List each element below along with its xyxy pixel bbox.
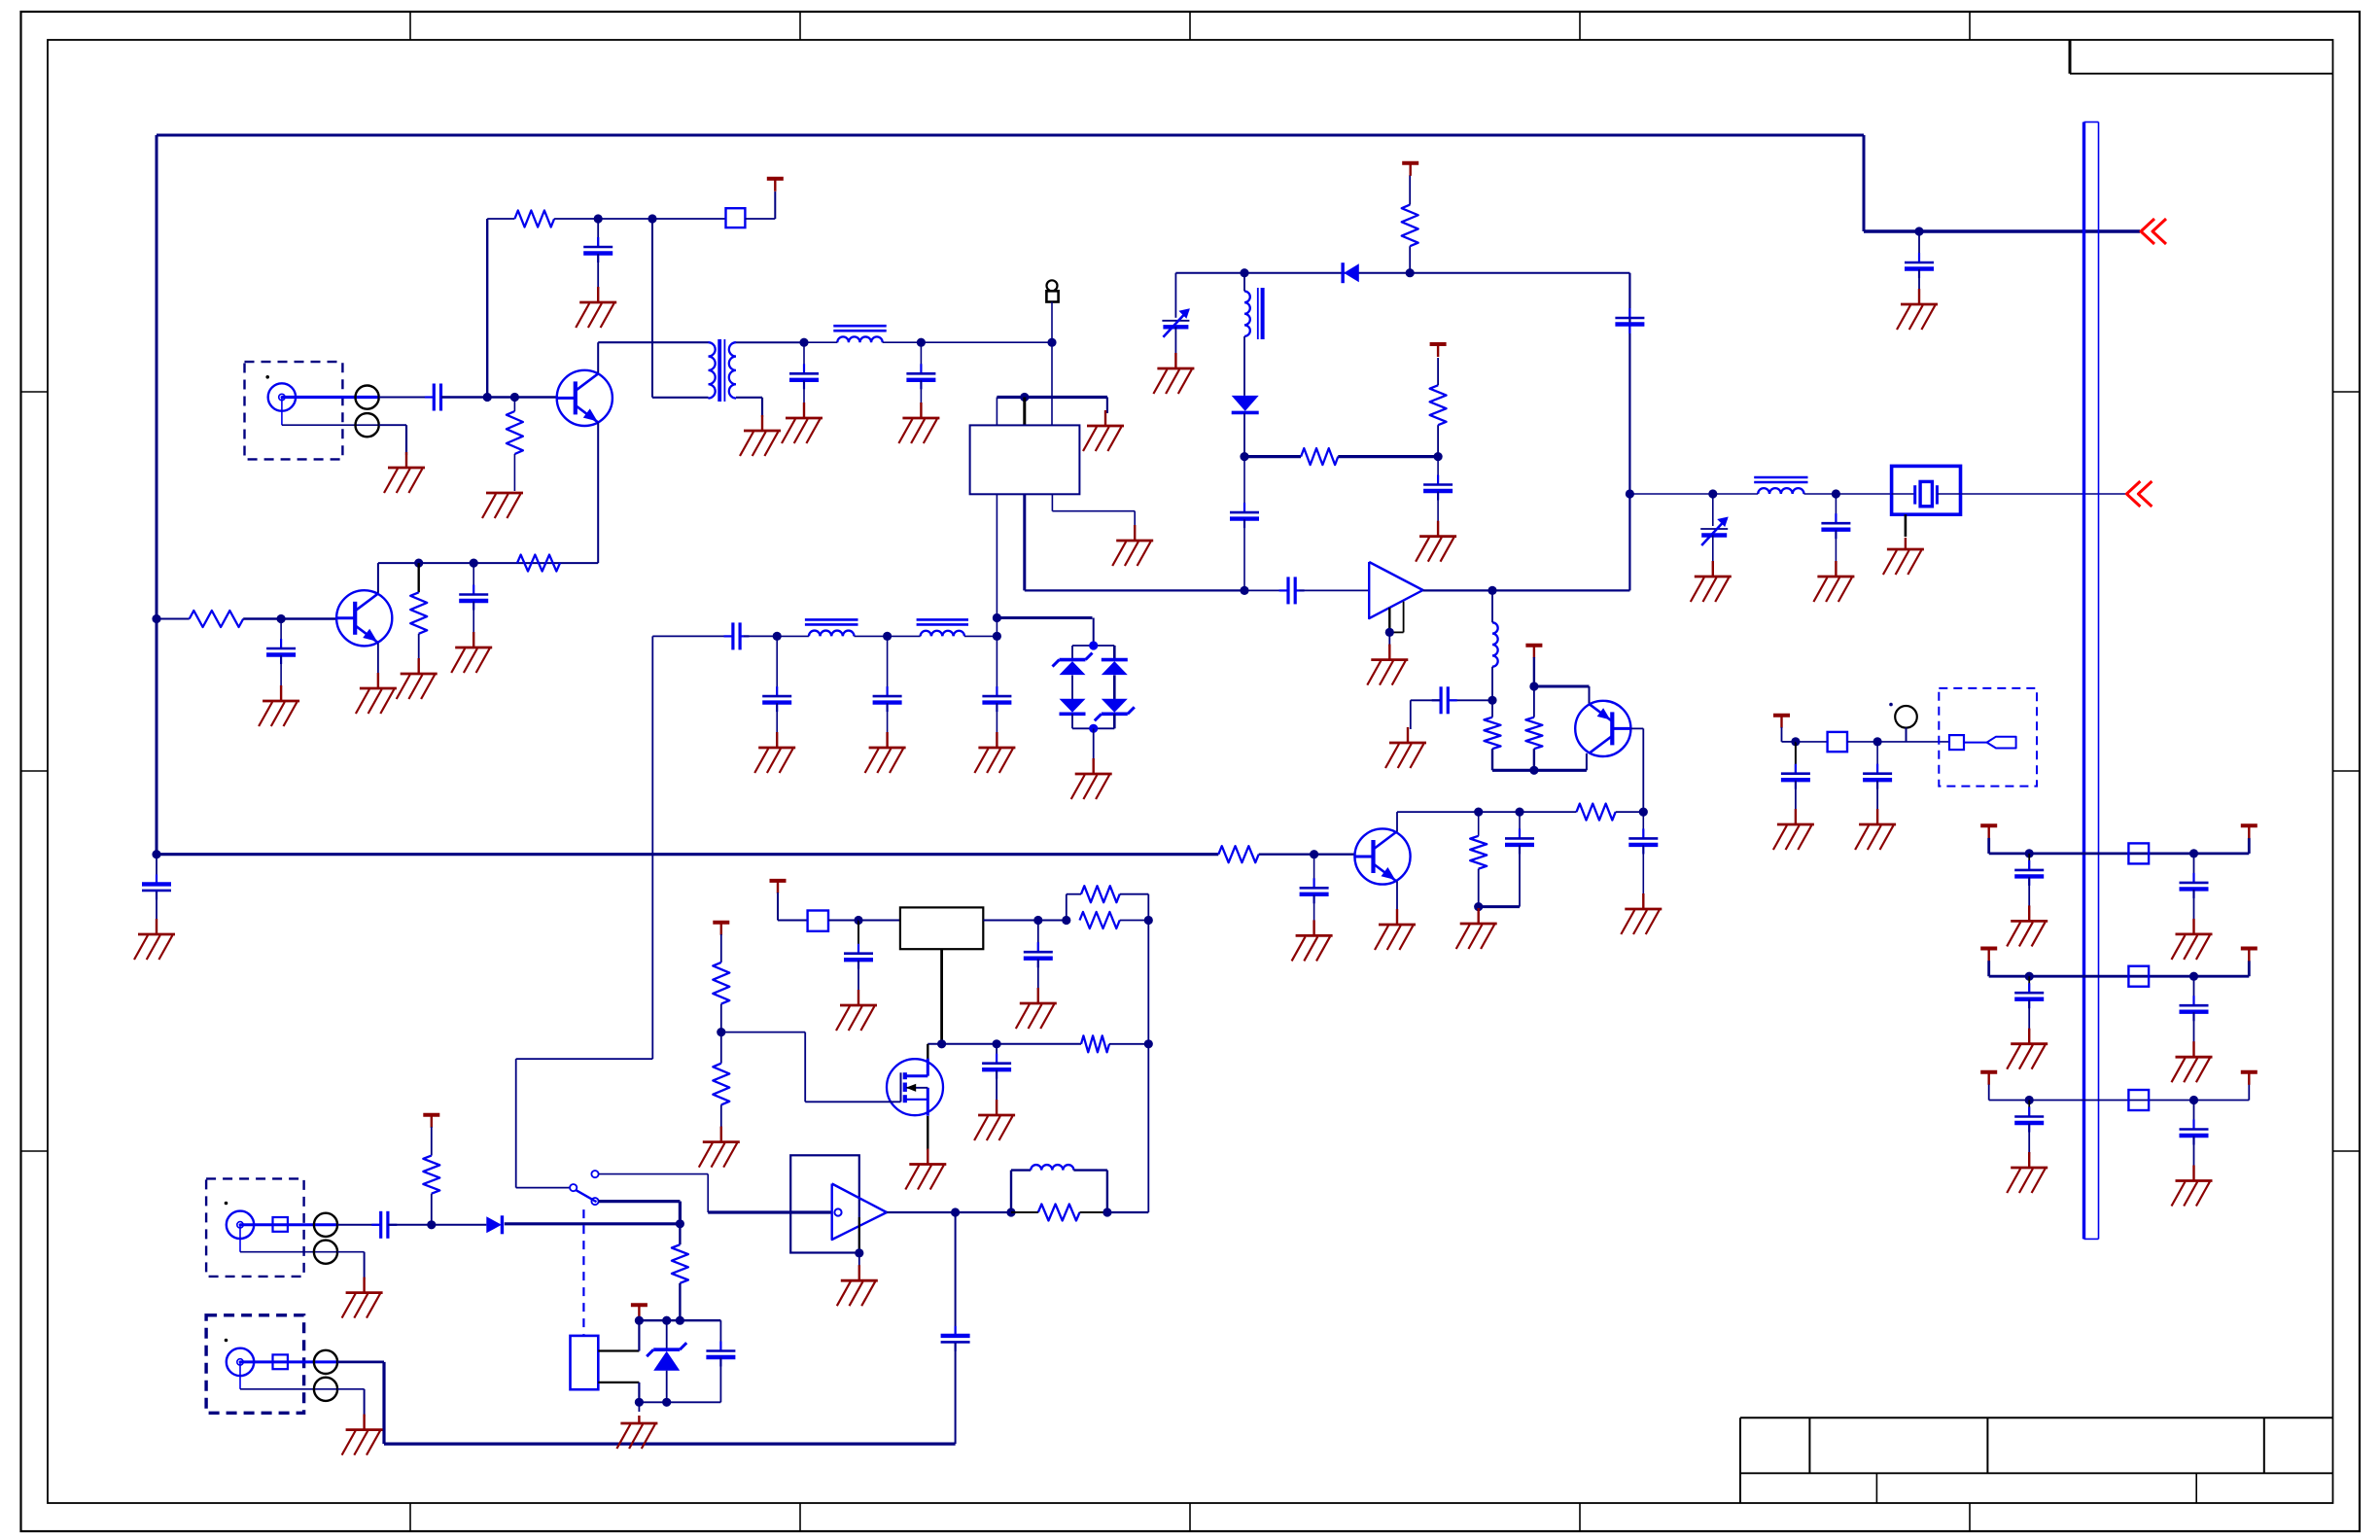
power VCC8 (631, 1305, 647, 1317)
switch linkage dashed (582, 1209, 584, 1336)
wire emitter feed (1534, 685, 1590, 688)
wire rail1 CR gnd (2193, 890, 2195, 921)
wire F4 cap stub (887, 636, 889, 696)
resistor R19 (1038, 1205, 1080, 1221)
frame tick top 1 (409, 12, 411, 40)
wire IC pin4 (996, 494, 997, 636)
capacitor C10 (724, 622, 750, 649)
ground G40 (1855, 809, 1896, 850)
node mic b (1873, 737, 1882, 746)
wire top to off-page (1864, 229, 2140, 232)
power VCC4 (1525, 646, 1542, 658)
J3 square pin (273, 1354, 288, 1369)
wire R10 top stub (1491, 700, 1493, 717)
resistor R8 (1402, 205, 1418, 247)
node rail2 right (2189, 972, 2198, 981)
wire bead to node (828, 920, 858, 922)
title block divider r2a (1875, 1473, 1877, 1503)
mic MK1 dashed box (1939, 688, 2037, 787)
wire rail1 left riser (1987, 838, 1990, 854)
wire rail2 left riser (1987, 961, 1990, 976)
switch SW1 throw A (591, 1171, 598, 1177)
ground G3 (576, 287, 616, 328)
wire out to split (1038, 920, 1067, 922)
wire R20 to node (431, 1194, 433, 1225)
wire supply to T junction (598, 218, 652, 220)
wire prot gnd stem (638, 1402, 640, 1412)
capacitor C rail2L (2014, 983, 2044, 1008)
wire C25 to bottom (955, 1343, 957, 1444)
capacitor C21 (1505, 828, 1534, 854)
zener D8 (647, 1343, 686, 1371)
wire F2 to antenna node (921, 341, 1052, 343)
node F4 (883, 632, 892, 641)
wire R15 to node (1120, 920, 1149, 922)
wire rail3 CL gnd (2028, 1124, 2030, 1155)
wire rail2 CL gnd (2028, 999, 2030, 1031)
capacitor C rail1R (2180, 873, 2209, 898)
wire gate riser (804, 1032, 806, 1102)
frame tick right 1 (2333, 391, 2361, 393)
wire R3 to node (243, 617, 281, 619)
wire vcc6 stem (720, 934, 722, 962)
wire corner down fb (1147, 894, 1149, 921)
J3 signal lead (240, 1360, 337, 1363)
frame top-right box (2070, 40, 2333, 74)
frame tick right 2 (2333, 770, 2361, 772)
wire C13 to ground (996, 703, 997, 734)
wire U2 gnd stem (1388, 632, 1390, 647)
resistor R6 (1218, 846, 1258, 862)
wire feed to primary bottom (652, 397, 709, 399)
resistor R11 (1525, 717, 1542, 750)
capacitor C1 (1905, 253, 1934, 278)
wire R16 to fb (1109, 1043, 1148, 1045)
wire rail1 (1989, 853, 2250, 856)
wire P4 shield drop (364, 1252, 366, 1279)
wire R9 top (1437, 358, 1439, 385)
ground G18 (974, 732, 1015, 773)
node F3 (773, 632, 782, 641)
wire IC pin5 (1023, 494, 1026, 590)
wire U4 gnd stem (858, 1253, 860, 1267)
wire xtal to off-page (1962, 493, 2126, 495)
wire C18 stub (1835, 494, 1837, 523)
wire base to Q2 (281, 617, 336, 619)
wire ANT to IC pin3 (1051, 342, 1053, 425)
wire C9 stub (1313, 855, 1315, 889)
diode D6 (1343, 262, 1359, 283)
ferrite bead FB rail2 (2128, 966, 2149, 987)
node gate divider (717, 1028, 725, 1036)
wire trimmer to L5 (1713, 493, 1758, 495)
ground G29 (1375, 909, 1416, 950)
ground G32 (974, 1100, 1015, 1140)
wire L4 top stub (1243, 273, 1245, 292)
wire C3 to ground (597, 254, 599, 289)
node reg in (854, 916, 862, 925)
inductor L4 core (1244, 288, 1263, 339)
wire collector to primary (598, 341, 708, 343)
ground G28 (1456, 908, 1497, 949)
node bypass (470, 559, 478, 568)
wire vcc9 to node (1782, 741, 1796, 743)
wire fb line (1397, 811, 1577, 813)
resistor R1 (514, 211, 554, 227)
capacitor C25 (941, 1326, 970, 1351)
wire Q1 collector (597, 342, 599, 372)
wire reg gnd pin (940, 949, 943, 1044)
mosfet Q5 (887, 1059, 943, 1116)
wire Q1 emitter (597, 423, 599, 564)
node xtal cap (1832, 489, 1840, 498)
wire fb rail (1479, 905, 1520, 908)
wire C8 stub (156, 855, 157, 885)
node fb join (1144, 916, 1153, 925)
node comp out (951, 1207, 960, 1216)
wire C22 stub (857, 921, 859, 954)
wire cap stub (1918, 231, 1920, 262)
ground G rail2R (2172, 1041, 2213, 1082)
wire C4 to ground (803, 380, 805, 404)
node osc LC (1487, 696, 1496, 705)
wire D5 to node (1243, 413, 1245, 457)
wire TVS left top (1071, 646, 1073, 660)
wire P3 to C26 (337, 1224, 381, 1226)
ground G36 (342, 1277, 383, 1318)
transformer T1 secondary (729, 342, 736, 398)
node LR left (1006, 1207, 1015, 1216)
wire source drop (927, 1116, 928, 1150)
wire C5 to ground (920, 380, 922, 404)
wire C26 to node (388, 1224, 432, 1226)
wire VC1 to ground (1174, 327, 1176, 355)
wire vcc7 stem (431, 1127, 433, 1156)
wire out to fb corner (1107, 1211, 1148, 1213)
wire supply to bead (652, 218, 726, 220)
wire C24 to ground (996, 1070, 997, 1102)
wire throwA down (707, 1174, 709, 1212)
resistor R3 (190, 611, 244, 627)
IC U1 box (970, 425, 1080, 494)
varactor D5 (1232, 396, 1259, 413)
wire rail3 right riser (2248, 1085, 2250, 1101)
wire bead to mic b (1847, 741, 1877, 743)
capacitor C9 (1300, 878, 1329, 903)
bus vertical (2084, 122, 2099, 1240)
capacitor C18 (1821, 513, 1850, 539)
wire rail3 left riser (1988, 1085, 1990, 1101)
ferrite bead FB3 (1828, 732, 1847, 752)
capacitor C15 (1230, 503, 1259, 528)
wire rail2 right riser (2248, 961, 2251, 976)
wire D7 to switch node (505, 1222, 681, 1225)
test point TP1 (1895, 706, 1917, 742)
node osc emitter rail (1529, 766, 1538, 775)
J3 shield lead (240, 1362, 337, 1389)
crystal filter X1 box (1892, 466, 1961, 514)
regulator U3 box (900, 907, 983, 949)
wire xtal line a (1629, 493, 1712, 495)
frame tick top 3 (1189, 12, 1191, 40)
wire vcc5 drop (777, 892, 779, 921)
U4 inverting bubble (834, 1208, 841, 1215)
resistor R2 (507, 411, 523, 454)
node mid cap (993, 1039, 1001, 1048)
node Q3 base net (1639, 808, 1648, 817)
wire IC pin1 riser (996, 398, 997, 426)
off-page connector 2 (2126, 481, 2152, 507)
wire P1 to C2 (379, 397, 434, 399)
wire buffer out (1423, 589, 1630, 591)
wire main loop top horizontal (157, 134, 1864, 137)
diode D1 zener (1053, 653, 1093, 676)
ground G16 (754, 732, 795, 773)
wire rail2 C stub L (2028, 976, 2030, 993)
ferrite bead FB2 (808, 911, 828, 931)
wire IC pin2 (1023, 398, 1026, 426)
TVS top rail (1072, 645, 1114, 647)
capacitor C13 (982, 686, 1011, 712)
wire R1 to node (554, 218, 598, 220)
wire bias top (487, 218, 514, 220)
wire C16 to ground (1437, 492, 1439, 524)
frame tick bottom 2 (799, 1503, 801, 1531)
diode D4 zener (1095, 699, 1135, 721)
wire rail3 C stub R (2193, 1101, 2195, 1130)
wire C21 stub (1519, 812, 1521, 838)
wire pi2 input vertical (651, 636, 653, 1059)
wire L6 to node (1491, 667, 1493, 701)
resistor R16 (1081, 1035, 1109, 1052)
wire base cap stub (280, 619, 282, 649)
ground G24 (1813, 561, 1854, 602)
wire bottom long (384, 1442, 956, 1445)
mic MK1 element (1987, 737, 2016, 749)
wire TVS to ground (1093, 728, 1095, 760)
wire C8 to ground (156, 891, 157, 922)
wire osc rail (1492, 769, 1587, 772)
wire reg out (983, 920, 1038, 922)
ground G26 (1385, 727, 1426, 768)
J3 marker dot (225, 1339, 228, 1343)
capacitor C14 (1279, 577, 1305, 604)
wire IF long (1025, 589, 1244, 591)
title block divider r1b (1986, 1417, 1988, 1473)
wire split up (1066, 894, 1067, 921)
power VT2R (2241, 949, 2257, 962)
power VCC2 (1402, 163, 1418, 176)
node zener bottom (662, 1398, 671, 1407)
wire rail1 right riser (2248, 838, 2251, 854)
wire R11 bottom (1533, 749, 1535, 770)
wire rail1 C stub R (2193, 854, 2195, 883)
wire fb vertical (1147, 921, 1149, 1213)
ground G39 (1773, 809, 1814, 850)
node rail3 right (2189, 1096, 2198, 1104)
wire drain riser (927, 1044, 928, 1060)
J1 marker dot (265, 375, 269, 379)
wire R18 to ground (720, 1104, 722, 1128)
node xtal branch (1626, 489, 1634, 498)
wire R11 top stub (1533, 686, 1535, 717)
wire C10 to F3 (744, 635, 777, 637)
node TVS top (1089, 641, 1098, 649)
capacitor C8 (142, 874, 171, 899)
power VCC3 (1430, 344, 1447, 357)
capacitor C17 (1615, 308, 1644, 333)
node tank L (1240, 268, 1248, 277)
pin P5 (314, 1350, 337, 1374)
wire F5 to TVS (997, 616, 1092, 619)
title block outline (1740, 1417, 2333, 1503)
power VCC6 (713, 923, 729, 935)
ground G13 (356, 673, 397, 714)
node fb gnd (1474, 902, 1483, 911)
inductor L7 (1031, 1165, 1073, 1171)
wire zener stub (666, 1320, 668, 1348)
power VT3L (1980, 1072, 1997, 1085)
power VCC7 (423, 1115, 439, 1128)
wire C22 to ground (857, 961, 859, 992)
capacitor C23 (1024, 942, 1053, 967)
wire P6 shield (337, 1388, 365, 1390)
wire R9 lead (1437, 425, 1439, 456)
ground G31 (1016, 988, 1057, 1029)
wire R18 stub (720, 1032, 722, 1064)
wire L6 top stub (1491, 590, 1493, 622)
diode D3 (1102, 660, 1128, 676)
wire prot bottom rail (639, 1401, 720, 1403)
node ANT junction (1047, 338, 1056, 347)
ground G30 (836, 990, 877, 1031)
capacitor C rail1L (2014, 860, 2044, 886)
wire R19 lead b (1080, 1211, 1107, 1213)
ground G8 (1083, 410, 1124, 451)
wire L5 to node (1804, 493, 1837, 495)
wire TVS left mid (1071, 675, 1073, 699)
node IC pin2 (1020, 393, 1029, 402)
node Q2 load (414, 559, 423, 568)
wire node to xtal (1836, 493, 1890, 495)
node Q1 bias (483, 393, 492, 402)
wire Q4 collector (1396, 812, 1398, 831)
power VCC1 (767, 179, 784, 192)
mic MK1 pin square (1949, 735, 1964, 750)
wire L4 to D5 (1243, 336, 1245, 396)
wire throwA right (599, 1173, 709, 1175)
wire corner up (774, 192, 776, 219)
title block divider r1c (2263, 1417, 2265, 1473)
connector J1 coax jack (268, 383, 296, 410)
node fb b (1515, 808, 1523, 817)
wire C23 stub (1037, 921, 1039, 953)
resistor R17 (713, 962, 729, 1004)
wire rail3 CR gnd (2193, 1137, 2195, 1168)
node U2 gnd (1385, 628, 1394, 637)
wire C7 to ground (472, 602, 474, 635)
wire VC2 stub (1712, 494, 1714, 526)
node mic a (1791, 737, 1800, 746)
wire P5 out (337, 1361, 384, 1364)
J2 shield lead (240, 1225, 337, 1252)
node R2 base divider (510, 393, 519, 402)
wire R8 top (1409, 175, 1411, 205)
wire up to R14 (1067, 893, 1081, 895)
resistor R4 (410, 592, 427, 634)
capacitor C27 (706, 1342, 735, 1367)
wire C29 to ground (1876, 781, 1878, 811)
pin P3 (314, 1213, 337, 1237)
node prot left (635, 1316, 644, 1325)
J1 signal lead (282, 396, 379, 399)
connector J2 jack (227, 1211, 254, 1239)
wire rail2 CR gnd (2193, 1012, 2195, 1043)
wire F2 cap stub (920, 342, 922, 373)
connector J1 dashed box (245, 362, 343, 459)
ground G21 (1153, 353, 1194, 394)
inductor L5 (1754, 477, 1807, 494)
off-page connector 1 (2141, 219, 2166, 244)
node zener top (662, 1316, 671, 1325)
wire F5 cap stub (996, 636, 997, 696)
pin P2 (356, 413, 379, 437)
J2 square pin (273, 1217, 288, 1232)
ground G rail1L (2007, 905, 2047, 946)
varcap VC2 (1700, 517, 1729, 546)
wire L1 to F2 (883, 341, 922, 343)
power VT2L (1980, 949, 1997, 962)
ferrite bead FB rail1 (2128, 843, 2149, 863)
wire node to reg (858, 920, 900, 922)
node Q2 input (152, 614, 160, 623)
wire bead to corner (745, 218, 775, 220)
node left cap (152, 850, 160, 858)
ground G12 (451, 632, 492, 673)
wire secondary bottom (736, 397, 762, 399)
ground G5 (740, 415, 781, 456)
resistor R14 (1081, 886, 1120, 902)
capacitor C26 (371, 1211, 397, 1239)
TVS bottom rail (1072, 727, 1114, 729)
wire tank top (1175, 272, 1629, 274)
power VT1L (1980, 825, 1997, 838)
wire K1 pin2 (598, 1382, 639, 1383)
ground G1 (1897, 289, 1938, 330)
connector J2 dashed box (206, 1178, 304, 1277)
ground G34 (699, 1127, 740, 1168)
wire C18 to ground (1835, 530, 1837, 563)
op-amp U4 (832, 1184, 887, 1241)
wire pi2 jog a (516, 1058, 653, 1060)
frame tick left 1 (21, 391, 49, 393)
power VT1R (2241, 825, 2257, 838)
ferrite bead FB rail3 (2128, 1090, 2149, 1110)
capacitor C20 (1628, 828, 1658, 854)
node top decoupling (1914, 227, 1923, 235)
wire var node to R7 (1244, 455, 1301, 458)
wire gate lead (805, 1101, 900, 1102)
wire C21 bottom (1519, 845, 1521, 906)
wire varcap drop (1174, 273, 1176, 318)
comparator U4 box (790, 1155, 859, 1252)
node fb split (1062, 916, 1070, 925)
ground G6 (782, 402, 822, 443)
wire rail2 (1989, 975, 2250, 978)
wire R2 stub (513, 398, 515, 412)
wire R6 to Q4 node (1259, 854, 1314, 856)
wire LR top a (1011, 1169, 1031, 1171)
